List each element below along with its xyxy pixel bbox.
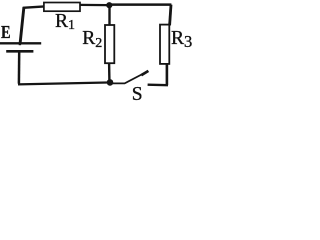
battery E long plate [0, 42, 41, 44]
wire top-middle horizontal [80, 4, 107, 6]
resistor R1 box [44, 3, 80, 12]
label E (battery emf) [1, 25, 11, 39]
wire R2 branch top vertical [108, 6, 110, 26]
node junction dot bottom [107, 79, 114, 86]
label S (switch) [132, 88, 143, 102]
switch S blade [113, 73, 145, 83]
wire right vertical bottom [166, 64, 169, 85]
wire top-left horizontal [23, 6, 45, 7]
wire top-right horizontal [111, 3, 171, 6]
wire bottom-left horizontal [18, 83, 108, 85]
battery E stub below long plate [19, 43, 21, 46]
wire right vertical top [170, 5, 171, 26]
wire left vertical (battery top lead) [20, 7, 24, 43]
label R2 [82, 31, 102, 51]
label R3 [171, 31, 192, 49]
wire bottom-right horizontal [148, 84, 168, 87]
label R1 [55, 14, 75, 33]
wire R2 branch bottom vertical [108, 63, 111, 80]
resistor R3 box [160, 25, 169, 64]
switch S blade tip tick [141, 71, 148, 75]
resistor R2 box [105, 25, 114, 63]
node junction dot top [106, 2, 112, 8]
wire left vertical (battery bottom lead) [18, 52, 21, 84]
battery E short thick plate [6, 50, 33, 53]
